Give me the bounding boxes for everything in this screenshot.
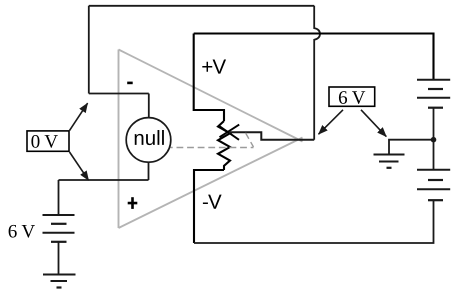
battery V2 (upper right) — [417, 80, 450, 108]
wire: ground tap — [389, 140, 434, 155]
label box: 6 V — [329, 87, 375, 106]
wire: battery V1 to left ground — [58, 242, 60, 275]
wiper arrow on R1 — [220, 125, 240, 140]
arrow: 0 V to feedback wire — [70, 103, 88, 130]
arrow: 6 V to right ground — [361, 110, 386, 137]
wire: null meter bottom lead — [148, 162, 150, 180]
wire: output feedback vertical with hop over +V rail — [314, 6, 320, 140]
label: minus input — [127, 82, 133, 85]
wire: -V bottom rail — [194, 200, 434, 243]
wire: left feedback drop to inverting input — [88, 6, 90, 94]
arrow: 6 V to output node — [319, 110, 344, 134]
op-amp U1 triangle (gray body) — [119, 50, 303, 229]
wire: top feedback run — [89, 5, 314, 7]
label: 6 V (left battery) — [9, 225, 35, 238]
wire: wiper to output node — [229, 132, 314, 140]
battery V3 (lower right) — [417, 170, 450, 201]
label: null — [135, 130, 164, 145]
arrow: 0 V to noninverting wire — [70, 152, 89, 180]
battery V1 (left, 6 V) — [43, 215, 75, 242]
wire: center tap vertical — [433, 108, 435, 170]
wire: battery V1 top lead — [58, 180, 60, 215]
dashed coupling link: null meter to wiper — [171, 133, 254, 148]
null meter M1 — [126, 118, 171, 163]
junction node: supply midpoint — [431, 137, 437, 143]
label box: 0 V — [27, 131, 69, 151]
label: +V — [202, 60, 226, 74]
wire: null meter top lead — [148, 94, 150, 119]
ground: left — [43, 275, 76, 288]
ground: right — [374, 155, 405, 168]
wire: inverting input horizontal — [89, 93, 149, 95]
wire: noninverting input horizontal — [59, 179, 149, 181]
op-amp package outline upper-left (+V box) — [194, 34, 224, 122]
potentiometer R1 zigzag — [218, 121, 230, 170]
op-amp package outline lower-left (-V box) — [194, 170, 224, 243]
label: plus input — [128, 202, 138, 205]
wire: +V supply rail — [194, 34, 434, 80]
label: -V — [203, 195, 222, 209]
